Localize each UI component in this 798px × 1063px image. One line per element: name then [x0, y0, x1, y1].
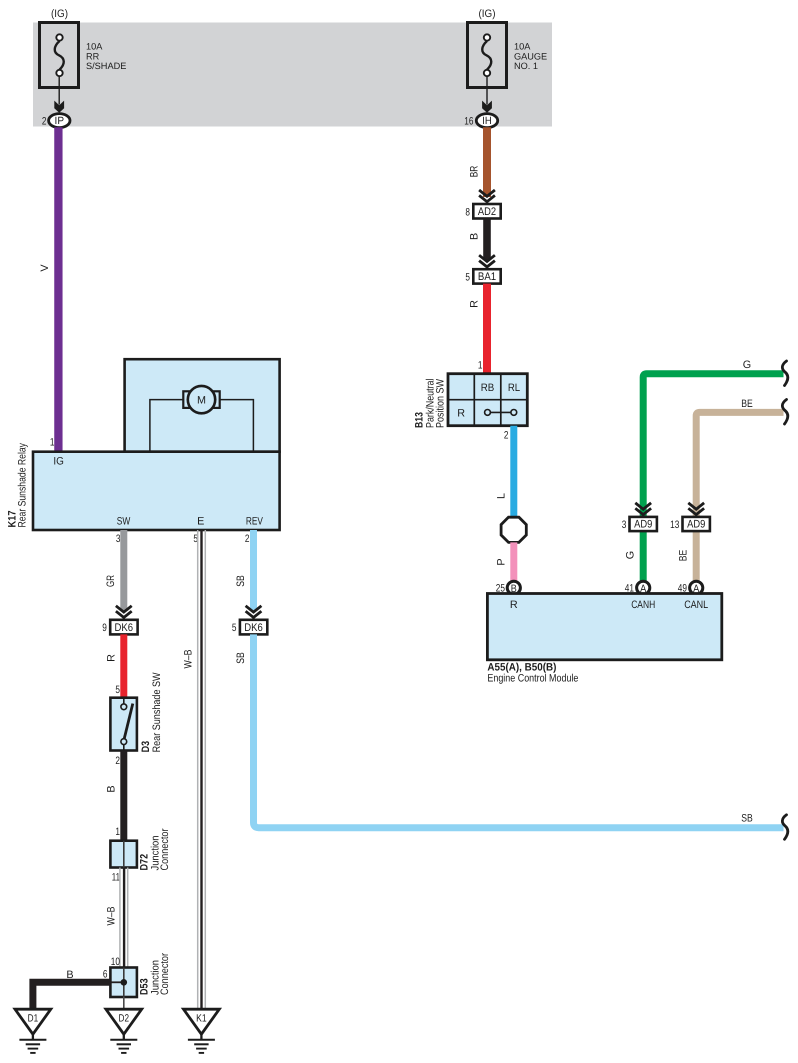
svg-text:BE: BE: [741, 398, 753, 410]
wire V violet IP to K17 pin1: [54, 127, 62, 451]
svg-text:E: E: [197, 516, 204, 528]
motor M: [188, 386, 215, 413]
pin 49 A of ECM: [678, 581, 703, 595]
svg-text:Connector: Connector: [159, 953, 171, 995]
svg-text:D1: D1: [28, 1013, 39, 1025]
connector DK6 pin 5: [232, 620, 267, 635]
D3 body: [110, 698, 136, 751]
connector BA1 pin 5: [465, 269, 500, 283]
svg-text:2: 2: [504, 430, 509, 442]
pin 41 A of ECM: [625, 581, 650, 595]
wire R red DK6 to D3: [120, 634, 127, 697]
junction dot in D53: [121, 979, 128, 986]
svg-text:3: 3: [116, 533, 121, 545]
svg-text:6: 6: [103, 969, 108, 981]
svg-text:1: 1: [478, 360, 483, 372]
svg-text:V: V: [39, 264, 51, 272]
svg-text:DK6: DK6: [244, 622, 263, 634]
wire W-B D72 to D53: [120, 868, 128, 968]
wire W-B E to K1: [198, 530, 206, 1009]
svg-text:G: G: [743, 359, 751, 371]
break squiggle BE: [782, 400, 787, 425]
switch B13 Park/Neutral Position SW: [448, 374, 527, 426]
wire B black D53 to D1: [33, 982, 111, 1009]
node IG power bus strip: [33, 23, 552, 127]
ground D1: [15, 1009, 51, 1053]
wire G green from right edge to pin 41: [643, 374, 783, 581]
ECM A55(A) B50(B) Engine Control Module: [487, 594, 721, 685]
svg-text:S/SHADE: S/SHADE: [86, 61, 126, 71]
svg-text:1: 1: [115, 826, 120, 838]
arrow chevron into DK6 (GR): [116, 606, 132, 618]
B13 body: [448, 374, 527, 426]
ECM body: [487, 594, 721, 660]
svg-text:SW: SW: [117, 516, 131, 528]
svg-text:IH: IH: [482, 115, 492, 127]
svg-text:B: B: [105, 785, 117, 792]
svg-text:REV: REV: [246, 516, 264, 528]
fuse F2 element: [484, 34, 490, 40]
octagon joint: [501, 517, 526, 542]
connector DK6 pin 9: [102, 620, 137, 635]
svg-text:R: R: [510, 599, 518, 611]
D72 body: [110, 841, 136, 868]
svg-text:R: R: [105, 654, 117, 662]
wire L blue B13 to octagon: [510, 426, 517, 518]
svg-text:2: 2: [42, 116, 47, 128]
arrow chevron into DK6 (SB): [246, 606, 262, 618]
svg-text:Engine Control Module: Engine Control Module: [487, 673, 578, 685]
junction connector D72: [110, 841, 136, 868]
svg-text:Connector: Connector: [159, 828, 171, 870]
svg-text:9: 9: [102, 622, 107, 634]
wire SB DK6 down and right to edge: [254, 634, 784, 827]
svg-text:(IG): (IG): [479, 8, 496, 20]
connector IP pin 2: [42, 114, 70, 128]
svg-text:SB: SB: [235, 652, 247, 664]
fuse F1 element: [56, 34, 62, 40]
arrow into IH: [482, 101, 492, 113]
break squiggle SB: [782, 815, 787, 840]
svg-text:SB: SB: [235, 575, 247, 587]
svg-text:CANH: CANH: [631, 599, 655, 611]
svg-text:AD2: AD2: [478, 206, 496, 218]
B13 grid lines: [473, 374, 475, 426]
fuse F2 10A GAUGE NO. 1: [468, 8, 548, 88]
wire BE beige from right edge to pin 49: [696, 412, 783, 580]
svg-text:16: 16: [464, 116, 473, 128]
pin 25 B of ECM: [496, 581, 521, 595]
svg-text:BE: BE: [678, 550, 690, 562]
svg-text:RB: RB: [481, 382, 495, 394]
break squiggle G: [782, 361, 787, 386]
arrow chevron into AD9 (G): [635, 503, 651, 515]
arrow chevron into BA1: [479, 255, 495, 267]
D53 body: [110, 968, 136, 998]
svg-text:W–B: W–B: [105, 907, 117, 926]
svg-text:L: L: [496, 493, 508, 499]
relay K17 Rear Sunshade Relay: [33, 359, 280, 530]
svg-text:W–B: W–B: [183, 650, 195, 669]
arrow chevron into AD2: [479, 190, 495, 202]
svg-text:3: 3: [622, 519, 627, 531]
wire P pink octagon to pin 25: [510, 542, 517, 581]
wire fuse2 to IH: [486, 76, 488, 105]
ground triangle D1: [15, 1009, 51, 1034]
svg-text:AD9: AD9: [634, 519, 652, 531]
svg-text:IP: IP: [55, 115, 65, 127]
wire SB sky blue REV to DK6: [250, 530, 257, 611]
wire BR brown IH to AD2: [483, 127, 491, 197]
svg-text:2: 2: [115, 755, 120, 767]
svg-text:B: B: [469, 233, 481, 240]
wire D53 to D2: [123, 997, 125, 1009]
svg-text:SB: SB: [741, 813, 753, 825]
svg-text:D3: D3: [140, 741, 152, 753]
svg-text:2: 2: [245, 533, 250, 545]
svg-text:10A: 10A: [86, 42, 103, 52]
junction connector D53: [110, 968, 136, 998]
wire GR gray SW to DK6: [120, 530, 127, 611]
svg-text:1: 1: [50, 437, 55, 449]
ground hatch D2: [123, 1034, 125, 1040]
svg-text:CANL: CANL: [684, 599, 708, 611]
svg-text:D2: D2: [119, 1013, 130, 1025]
ground triangle D2: [106, 1009, 142, 1034]
K17 motor housing: [125, 359, 280, 452]
svg-text:5: 5: [115, 684, 120, 696]
switch D3 Rear Sunshade SW: [110, 698, 136, 751]
motor lead wires: [150, 400, 184, 452]
svg-text:8: 8: [465, 206, 470, 218]
svg-text:AD9: AD9: [687, 519, 705, 531]
svg-text:R: R: [469, 300, 481, 308]
svg-text:NO. 1: NO. 1: [514, 61, 538, 71]
svg-text:RL: RL: [508, 382, 520, 394]
svg-text:10A: 10A: [514, 42, 531, 52]
svg-text:R: R: [457, 408, 465, 420]
svg-text:5: 5: [465, 272, 470, 284]
svg-text:GAUGE: GAUGE: [514, 51, 547, 61]
svg-text:B: B: [66, 969, 73, 981]
fuse F2 body: [468, 23, 507, 88]
motor brushes: [183, 391, 189, 408]
svg-text:P: P: [496, 558, 508, 565]
connector symbol IH: [476, 114, 497, 128]
connector AD9 pin 13: [670, 517, 710, 531]
wire fuse1 to IP: [58, 76, 60, 105]
ground hatch D1: [32, 1034, 34, 1040]
svg-text:RR: RR: [86, 51, 100, 61]
svg-text:BR: BR: [469, 166, 481, 178]
svg-text:5: 5: [232, 622, 237, 634]
arrow into IP: [54, 101, 64, 113]
wire B black AD2 to BA1: [483, 219, 491, 261]
svg-text:(IG): (IG): [51, 8, 68, 20]
svg-text:GR: GR: [105, 575, 117, 587]
wire R red BA1 to B13 pin 1: [483, 284, 491, 374]
ground K1: [184, 1009, 220, 1053]
ground triangle K1: [184, 1009, 220, 1034]
wire B black D3 to D72: [120, 751, 127, 841]
svg-text:M: M: [197, 395, 206, 407]
connector AD2 pin 8: [465, 204, 500, 219]
svg-text:K1: K1: [196, 1013, 207, 1025]
svg-text:Rear Sunshade SW: Rear Sunshade SW: [151, 672, 163, 753]
svg-text:BA1: BA1: [478, 271, 496, 283]
connector symbol IP: [49, 114, 70, 128]
svg-text:IG: IG: [53, 456, 64, 468]
connector AD9 pin 3: [622, 517, 657, 531]
svg-text:Position SW: Position SW: [434, 378, 446, 428]
B13 switch contacts: [490, 411, 511, 413]
ground hatch K1: [200, 1034, 202, 1040]
fuse F1 10A RR S/SHADE: [40, 8, 127, 88]
D3 switch blade: [124, 704, 133, 739]
svg-text:G: G: [625, 551, 637, 559]
svg-text:DK6: DK6: [115, 622, 134, 634]
ground D2: [106, 1009, 142, 1053]
K17 relay body: [33, 452, 280, 530]
svg-text:13: 13: [670, 519, 679, 531]
svg-text:11: 11: [112, 872, 120, 884]
arrow chevron into AD9 (BE): [688, 503, 704, 515]
fuse F1 body: [40, 23, 79, 88]
svg-text:Rear Sunshade Relay: Rear Sunshade Relay: [17, 443, 29, 528]
connector IH pin 16: [464, 114, 497, 128]
